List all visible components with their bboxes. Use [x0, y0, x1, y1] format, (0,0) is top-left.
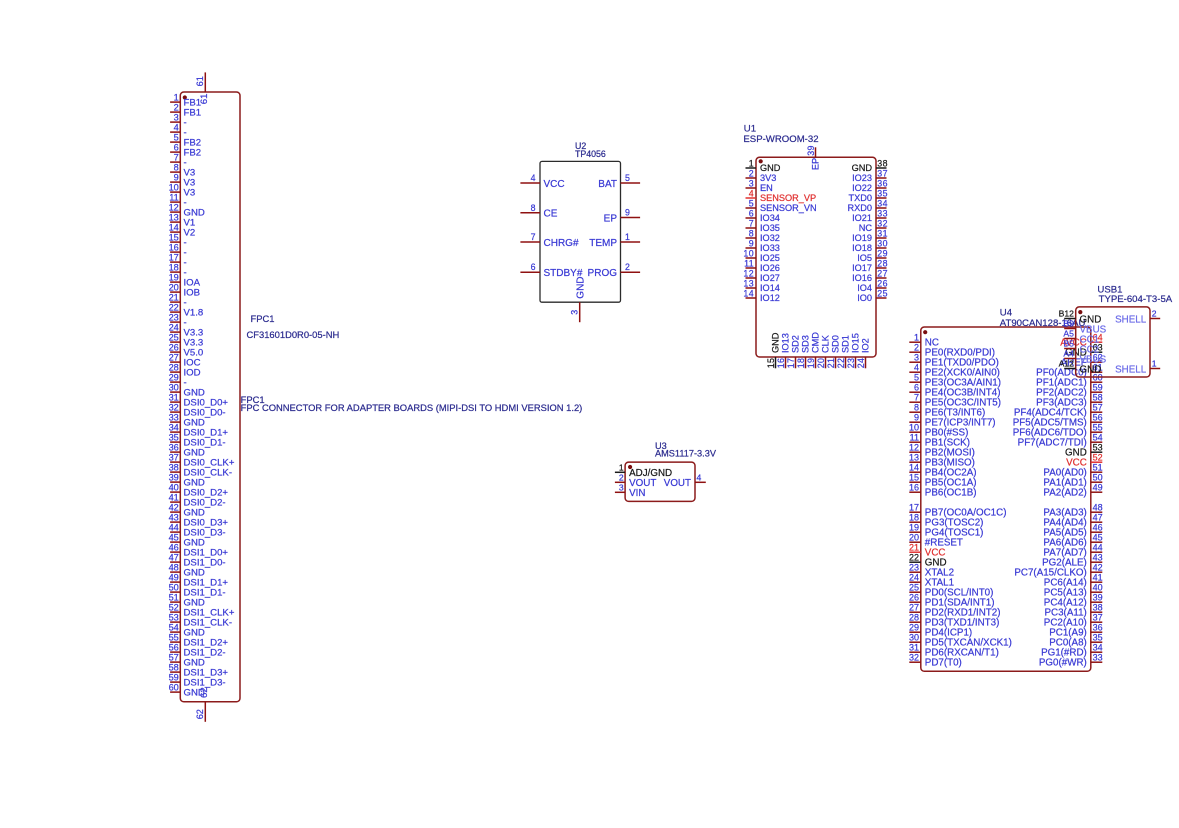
svg-text:IO18: IO18	[852, 243, 872, 253]
svg-text:CLK: CLK	[821, 334, 831, 353]
svg-text:IO5: IO5	[857, 253, 872, 263]
svg-text:1: 1	[749, 158, 754, 168]
svg-text:17: 17	[909, 502, 919, 512]
U1 pin 21 SD0 (bottom)	[826, 335, 841, 368]
svg-text:EP: EP	[811, 158, 821, 170]
svg-text:IO14: IO14	[760, 283, 780, 293]
U4 pin 2 PE0(RXD0/PDI)	[909, 342, 995, 358]
U4 pin 7 PE5(OC3C/INT5)	[909, 392, 1001, 408]
U1 pin 37 IO23	[852, 168, 888, 183]
U4 pin 53 GND	[1065, 442, 1103, 458]
U4 pin 13 PB3(MISO)	[909, 452, 975, 468]
svg-text:17: 17	[169, 253, 179, 263]
svg-text:53: 53	[1093, 442, 1103, 452]
svg-text:GND: GND	[1080, 365, 1102, 376]
U4 pin 12 PB2(MOSI)	[909, 442, 975, 458]
FPC1 pin 16 -	[169, 243, 187, 259]
svg-text:1: 1	[619, 463, 624, 473]
svg-text:GND: GND	[760, 163, 781, 173]
FPC1 pin 11 -	[169, 193, 186, 209]
U4 pin 62 AREF	[1061, 352, 1103, 368]
svg-text:FPC CONNECTOR FOR ADAPTER BOAR: FPC CONNECTOR FOR ADAPTER BOARDS (MIPI-D…	[241, 402, 583, 413]
FPC1 pin 41 DSI0_D2-	[169, 493, 226, 509]
U4 pin 26 PD1(SDA/INT1)	[909, 592, 995, 608]
U1 pin 36 IO22	[852, 178, 888, 193]
FPC1 pin 49 DSI1_D1+	[169, 573, 229, 589]
svg-text:37: 37	[1093, 612, 1103, 622]
svg-text:31: 31	[909, 642, 919, 652]
svg-text:1: 1	[914, 332, 919, 342]
svg-text:4: 4	[531, 173, 536, 183]
svg-text:8: 8	[749, 228, 754, 238]
FPC1 pin 35 DSI0_D1-	[169, 433, 226, 449]
U1 pin 24 IO2 (bottom)	[856, 338, 871, 368]
svg-text:5: 5	[749, 198, 754, 208]
svg-text:58: 58	[1093, 392, 1103, 402]
svg-text:PROG: PROG	[588, 268, 618, 279]
connector USB1 TYPE-604-T3-5A body	[1076, 307, 1150, 377]
FPC1 pin 51 GND	[169, 593, 205, 609]
U4 pin 14 PB4(OC2A)	[909, 462, 977, 478]
svg-text:49: 49	[1093, 482, 1103, 492]
svg-text:33: 33	[169, 413, 179, 423]
svg-text:60: 60	[169, 683, 179, 693]
svg-text:BAT: BAT	[598, 179, 617, 190]
svg-text:56: 56	[169, 643, 179, 653]
U2 pin 7 CHRG#	[520, 232, 579, 249]
U1 pin 23 IO15 (bottom)	[846, 333, 861, 368]
svg-text:20: 20	[909, 532, 919, 542]
svg-text:GND: GND	[576, 276, 587, 298]
svg-text:39: 39	[169, 473, 179, 483]
svg-text:3V3: 3V3	[760, 173, 776, 183]
svg-text:57: 57	[1093, 402, 1103, 412]
svg-text:TXD0: TXD0	[849, 193, 873, 203]
IC U2 TP4056 body	[540, 161, 621, 302]
U4 pin 64 AVCC	[1060, 332, 1102, 348]
svg-text:34: 34	[1093, 642, 1103, 652]
svg-text:2: 2	[914, 342, 919, 352]
svg-text:CF31601D0R0-05-NH: CF31601D0R0-05-NH	[247, 329, 340, 340]
U1 pin 32 NC	[859, 218, 888, 233]
U2 pin 2 PROG	[588, 262, 641, 279]
svg-text:37: 37	[877, 168, 888, 178]
U4 pin 56 PF5(ADC5/TMS)	[1013, 412, 1103, 428]
svg-text:3: 3	[619, 483, 624, 493]
svg-text:B9: B9	[1063, 319, 1074, 329]
svg-text:22: 22	[836, 358, 846, 369]
svg-text:IO21: IO21	[852, 213, 872, 223]
U4 pin 35 PC0(A8)	[1049, 632, 1102, 648]
U1 pin 26 IO4	[857, 278, 888, 293]
svg-text:CHRG#: CHRG#	[544, 238, 579, 249]
svg-text:14: 14	[169, 223, 179, 233]
U3 pin 2 VOUT	[615, 473, 656, 490]
svg-text:46: 46	[1093, 522, 1103, 532]
svg-text:IO34: IO34	[760, 213, 780, 223]
svg-text:IO23: IO23	[852, 173, 872, 183]
svg-text:VIN: VIN	[629, 488, 645, 499]
U1 pin 4 SENSOR_VP	[746, 188, 817, 203]
U4 pin 40 PC5(A13)	[1044, 582, 1103, 598]
U4 pin 48 PA3(AD3)	[1043, 502, 1102, 518]
FPC1 pin 37 DSI0_CLK+	[169, 453, 235, 469]
svg-text:13: 13	[169, 213, 179, 223]
U4 pin 55 PF6(ADC6/TDO)	[1013, 422, 1103, 438]
svg-text:SD3: SD3	[801, 335, 811, 353]
svg-text:56: 56	[1093, 412, 1103, 422]
U2 pin 5 BAT	[598, 173, 640, 190]
U4 pin 47 PA4(AD4)	[1043, 512, 1102, 528]
svg-text:7: 7	[749, 218, 754, 228]
svg-text:49: 49	[169, 573, 179, 583]
svg-text:23: 23	[846, 358, 856, 369]
svg-text:IO33: IO33	[760, 243, 780, 253]
svg-text:45: 45	[169, 533, 179, 543]
FPC1 pin 52 DSI1_CLK+	[169, 603, 235, 619]
svg-text:28: 28	[877, 258, 888, 268]
FPC1 pin 47 DSI1_D0-	[169, 553, 226, 569]
svg-text:50: 50	[1093, 472, 1103, 482]
svg-text:46: 46	[169, 543, 179, 553]
FPC1 pin 31 DSI0_D0+	[169, 393, 229, 409]
svg-text:57: 57	[169, 653, 179, 663]
U1 pin 29 IO5	[857, 248, 888, 263]
svg-text:28: 28	[169, 363, 179, 373]
U1 pin 14 IO12	[743, 288, 780, 303]
svg-text:21: 21	[169, 293, 179, 303]
svg-text:35: 35	[169, 433, 179, 443]
svg-text:9: 9	[174, 173, 179, 183]
svg-text:25: 25	[877, 288, 888, 298]
svg-text:IO16: IO16	[852, 273, 872, 283]
svg-text:16: 16	[776, 358, 786, 369]
svg-text:15: 15	[766, 358, 776, 369]
U1 pin-1 marker dot	[759, 159, 763, 163]
FPC1 pin 50 DSI1_D1-	[169, 583, 226, 599]
USB1 pin A5 CC1	[1063, 329, 1099, 346]
svg-text:26: 26	[169, 343, 179, 353]
svg-text:15: 15	[909, 472, 919, 482]
U4 pin 27 PD2(RXD1/INT2)	[909, 602, 1000, 618]
FPC1 pin 53 DSI1_CLK-	[169, 613, 232, 629]
svg-text:15: 15	[169, 233, 179, 243]
FPC1 pin 4 -	[170, 123, 187, 139]
svg-text:FPC1: FPC1	[251, 313, 275, 324]
svg-text:47: 47	[169, 553, 179, 563]
svg-text:SD0: SD0	[831, 335, 841, 353]
svg-text:12: 12	[169, 203, 179, 213]
U1 pin 10 IO25	[743, 248, 780, 263]
svg-text:IO15: IO15	[851, 333, 861, 353]
svg-text:A5: A5	[1063, 329, 1074, 339]
svg-text:8: 8	[914, 402, 919, 412]
U4 pin 21 VCC	[909, 542, 946, 558]
FPC1 pin 19 IOA	[169, 273, 201, 289]
U4 pin 24 XTAL1	[909, 572, 954, 588]
U2 pin 8 CE	[520, 203, 557, 220]
svg-text:2: 2	[749, 168, 754, 178]
U1 pin 11 IO26	[744, 258, 780, 273]
svg-text:42: 42	[1093, 562, 1103, 572]
U4 pin 25 PD0(SCL/INT0)	[909, 582, 993, 598]
U4 pin 34 PG1(#RD)	[1041, 642, 1103, 658]
FPC1 pin 46 DSI1_D0+	[169, 543, 229, 559]
FPC1 pin 20 IOB	[169, 283, 200, 299]
U1 pin 8 IO32	[746, 228, 780, 243]
U1 pin 33 IO21	[852, 208, 888, 223]
U4 pin 41 PC6(A14)	[1044, 572, 1103, 588]
U4 pin 38 PC3(A11)	[1045, 602, 1103, 618]
U1 pin 5 SENSOR_VN	[746, 198, 817, 213]
svg-text:55: 55	[169, 633, 179, 643]
FPC1 pin 60 GND	[169, 683, 205, 699]
svg-text:2: 2	[174, 103, 179, 113]
U4 pin 29 PD4(ICP1)	[909, 622, 972, 638]
svg-text:20: 20	[169, 283, 179, 293]
U4 pin 30 PD5(TXCAN/XCK1)	[909, 632, 1012, 648]
U4 pin 18 PG3(TOSC2)	[909, 512, 983, 528]
svg-text:14: 14	[909, 462, 919, 472]
U3 pin 4 VOUT	[664, 473, 706, 490]
svg-text:30: 30	[877, 238, 888, 248]
svg-text:A12: A12	[1059, 359, 1075, 369]
svg-text:PD7(T0): PD7(T0)	[925, 658, 962, 669]
svg-text:17: 17	[786, 358, 796, 369]
svg-text:59: 59	[169, 673, 179, 683]
U1 pin 31 IO19	[852, 228, 888, 243]
U4 pin 8 PE6(T3/INT6)	[909, 402, 985, 418]
svg-text:AMS1117-3.3V: AMS1117-3.3V	[655, 449, 717, 459]
U4 pin 31 PD6(RXCAN/T1)	[909, 642, 999, 658]
svg-text:34: 34	[877, 198, 888, 208]
U1 pin 39 EP (top)	[806, 145, 821, 170]
svg-text:61: 61	[199, 94, 210, 105]
svg-text:40: 40	[1093, 582, 1103, 592]
FPC1 pin 32 DSI0_D0-	[169, 403, 226, 419]
FPC1 pin 42 GND	[169, 503, 205, 519]
svg-text:51: 51	[1093, 462, 1103, 472]
svg-text:B5: B5	[1063, 339, 1074, 349]
svg-text:16: 16	[169, 243, 179, 253]
FPC1 pin 57 GND	[169, 653, 205, 669]
U4 pin 63 GND	[1065, 342, 1103, 358]
svg-text:TYPE-604-T3-5A: TYPE-604-T3-5A	[1099, 294, 1173, 305]
svg-text:52: 52	[169, 603, 179, 613]
USB1 pin A12 GND	[1059, 359, 1102, 376]
svg-text:6: 6	[174, 143, 179, 153]
svg-text:22: 22	[909, 552, 919, 562]
FPC1 pin 1 FB1	[170, 93, 201, 109]
U4 pin 60 PF1(ADC1)	[1036, 372, 1102, 388]
USB1 pin-1 marker dot	[1078, 310, 1082, 314]
svg-text:2: 2	[1152, 309, 1157, 319]
svg-text:43: 43	[1093, 552, 1103, 562]
svg-text:A4: A4	[1063, 349, 1074, 359]
svg-text:33: 33	[1093, 652, 1103, 662]
svg-text:30: 30	[909, 632, 919, 642]
svg-text:32: 32	[877, 218, 888, 228]
U4 pin 42 PC7(A15/CLKO)	[1014, 562, 1102, 578]
U4 pin 6 PE4(OC3B/INT4)	[909, 382, 1000, 398]
svg-text:12: 12	[909, 442, 919, 452]
U2 pin 6 STDBY#	[520, 262, 582, 279]
U4 pin 54 PF7(ADC7/TDI)	[1018, 432, 1103, 448]
svg-text:VOUT: VOUT	[664, 478, 691, 489]
IC U4 AT90CAN128-16AU body	[921, 327, 1091, 671]
connector FPC1 body	[180, 92, 240, 702]
U1 pin 6 IO34	[746, 208, 780, 223]
FPC1 pin 7 -	[170, 153, 187, 169]
FPC1 pin 44 DSI0_D3-	[169, 523, 226, 539]
svg-text:32: 32	[909, 652, 919, 662]
U2 pin 3 GND (bottom)	[569, 276, 586, 322]
svg-text:IO0: IO0	[857, 293, 872, 303]
svg-text:4: 4	[697, 473, 702, 483]
svg-text:9: 9	[749, 238, 754, 248]
U1 pin 20 CLK (bottom)	[816, 334, 831, 368]
U4 pin 9 PE7(ICP3/INT7)	[909, 412, 995, 428]
svg-text:1: 1	[625, 232, 630, 242]
U4 pin 5 PE3(OC3A/AIN1)	[909, 372, 1001, 388]
FPC1 pin 2 FB1	[170, 103, 201, 119]
FPC1 pin 14 V2	[169, 223, 196, 239]
svg-text:62: 62	[199, 687, 210, 698]
svg-text:53: 53	[169, 613, 179, 623]
U1 pin 30 IO18	[852, 238, 888, 253]
U4 pin 58 PF3(ADC3)	[1036, 392, 1102, 408]
U1 pin 34 RXD0	[847, 198, 887, 213]
svg-text:19: 19	[806, 358, 816, 369]
svg-text:SHELL: SHELL	[1115, 315, 1147, 326]
svg-text:58: 58	[169, 663, 179, 673]
U4 pin 51 PA0(AD0)	[1043, 462, 1102, 478]
U1 pin 13 IO14	[743, 278, 780, 293]
svg-text:CMD: CMD	[811, 332, 821, 353]
U1 pin 15 GND (bottom)	[766, 332, 781, 368]
svg-text:42: 42	[169, 503, 179, 513]
svg-text:22: 22	[169, 303, 179, 313]
svg-text:34: 34	[169, 423, 179, 433]
svg-text:TP4056: TP4056	[575, 149, 606, 159]
svg-text:SD2: SD2	[791, 335, 801, 353]
U4 pin 22 GND	[909, 552, 947, 568]
svg-text:26: 26	[877, 278, 888, 288]
FPC1 pin 6 FB2	[170, 143, 201, 159]
U2 pin 4 VCC	[520, 173, 564, 190]
svg-text:1: 1	[1152, 359, 1157, 369]
FPC1 pin 33 GND	[169, 413, 205, 429]
U4 pin 46 PA5(AD5)	[1043, 522, 1102, 538]
FPC1 pin 40 DSI0_D2+	[169, 483, 229, 499]
svg-text:29: 29	[169, 373, 179, 383]
U1 pin 3 EN	[746, 178, 773, 193]
svg-text:5: 5	[174, 133, 179, 143]
FPC1 pin 10 V3	[169, 183, 196, 199]
svg-text:29: 29	[877, 248, 888, 258]
USB1 pin A4 VBUS	[1063, 349, 1106, 366]
svg-text:PB6(OC1B): PB6(OC1B)	[925, 488, 977, 499]
svg-text:9: 9	[914, 412, 919, 422]
svg-text:NC: NC	[859, 223, 873, 233]
svg-text:9: 9	[625, 208, 630, 218]
svg-text:13: 13	[743, 278, 754, 288]
U1 pin 27 IO16	[852, 268, 888, 283]
FPC1 pin-1 marker dot	[183, 95, 187, 99]
svg-text:5: 5	[914, 372, 919, 382]
FPC1 pin 43 DSI0_D3+	[169, 513, 229, 529]
U1 pin 7 IO35	[746, 218, 780, 233]
svg-text:38: 38	[1093, 602, 1103, 612]
U4 pin 49 PA2(AD2)	[1043, 482, 1102, 498]
IC U1 ESP-WROOM-32 body	[756, 157, 876, 357]
svg-text:6: 6	[531, 262, 536, 272]
svg-text:2: 2	[619, 473, 624, 483]
svg-text:4: 4	[174, 123, 179, 133]
svg-text:EN: EN	[760, 183, 773, 193]
svg-text:51: 51	[169, 593, 179, 603]
svg-text:IO35: IO35	[760, 223, 780, 233]
U4 pin-1 marker dot	[923, 330, 927, 334]
FPC1 pin 48 GND	[169, 563, 205, 579]
FPC1 pin 62 (bottom)	[195, 687, 210, 721]
FPC1 pin 9 V3	[170, 173, 195, 189]
FPC1 pin 29 -	[169, 373, 187, 389]
U1 pin 22 SD1 (bottom)	[836, 335, 851, 368]
U4 pin 19 PG4(TOSC1)	[909, 522, 983, 538]
U4 pin 43 PG2(ALE)	[1042, 552, 1102, 568]
U4 pin 28 PD3(TXD1/INT3)	[909, 612, 999, 628]
svg-text:50: 50	[169, 583, 179, 593]
U4 pin 1 NC	[909, 332, 939, 348]
U1 pin 16 IO13 (bottom)	[776, 333, 791, 368]
svg-text:27: 27	[169, 353, 179, 363]
svg-text:52: 52	[1093, 452, 1103, 462]
FPC1 pin 24 V3.3	[169, 323, 204, 339]
svg-text:23: 23	[909, 562, 919, 572]
svg-text:45: 45	[1093, 532, 1103, 542]
svg-text:4: 4	[914, 362, 919, 372]
U2 pin 1 TEMP	[589, 232, 640, 249]
svg-text:4: 4	[749, 188, 754, 198]
svg-text:6: 6	[914, 382, 919, 392]
svg-text:27: 27	[909, 602, 919, 612]
svg-text:PG0(#WR): PG0(#WR)	[1039, 658, 1087, 669]
FPC1 pin 28 IOD	[169, 363, 201, 379]
svg-text:8: 8	[174, 163, 179, 173]
svg-text:38: 38	[877, 158, 888, 168]
svg-text:GND: GND	[852, 163, 873, 173]
U2 pin 9 EP	[604, 208, 640, 225]
svg-text:7: 7	[531, 232, 536, 242]
svg-text:IO17: IO17	[852, 263, 872, 273]
FPC1 pin 5 FB2	[170, 133, 201, 149]
svg-text:23: 23	[169, 313, 179, 323]
U4 pin 44 PA7(AD7)	[1043, 542, 1102, 558]
svg-text:IO2: IO2	[861, 338, 871, 353]
FPC1 pin 27 IOC	[169, 353, 201, 369]
FPC1 pin 58 DSI1_D3+	[169, 663, 229, 679]
svg-text:GND: GND	[771, 332, 781, 353]
FPC1 pin 25 V3.3	[169, 333, 204, 349]
FPC1 pin 15 -	[169, 233, 187, 249]
svg-text:6: 6	[749, 208, 754, 218]
FPC1 pin 17 -	[169, 253, 187, 269]
svg-text:39: 39	[806, 145, 816, 156]
svg-text:41: 41	[169, 493, 179, 503]
svg-text:25: 25	[169, 333, 179, 343]
U4 pin 57 PF4(ADC4/TCK)	[1014, 402, 1103, 418]
